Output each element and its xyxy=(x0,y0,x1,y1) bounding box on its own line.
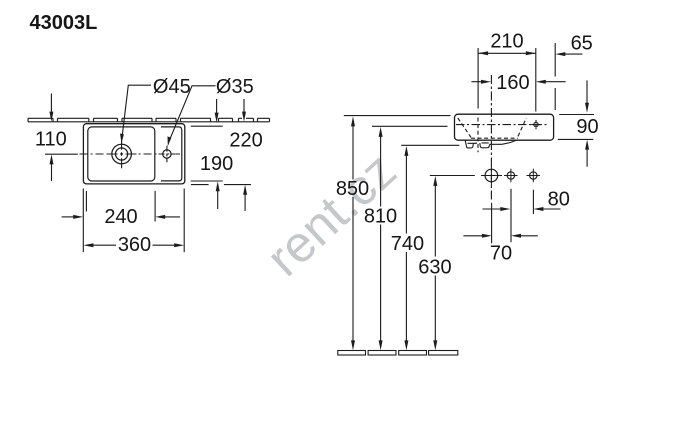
dimension labels xyxy=(35,31,599,279)
vertical centerline xyxy=(490,75,492,202)
vertical centerline solid lower part xyxy=(491,203,493,244)
svg-text:43003L: 43003L xyxy=(30,12,98,34)
dim 850 shaft xyxy=(352,124,354,343)
dim 240 right arrow shaft xyxy=(164,216,181,218)
dim 190 upper arrow shaft xyxy=(216,99,218,114)
svg-text:65: 65 xyxy=(571,32,593,54)
svg-text:160: 160 xyxy=(496,72,529,94)
svg-text:80: 80 xyxy=(548,189,570,211)
dim 80 right arrow shaft xyxy=(542,208,561,210)
dim 90 upper arrow shaft xyxy=(586,80,588,104)
dim 70 left arrow shaft xyxy=(463,235,484,237)
arrow 110 down xyxy=(49,112,53,122)
hole H1 xyxy=(481,165,502,186)
crosshair D35 vertical xyxy=(166,146,168,162)
extension line 360 left xyxy=(82,189,84,253)
arrow 240 left xyxy=(155,215,165,219)
dim 110 upper arrow shaft xyxy=(50,94,52,114)
leader arrow D35 xyxy=(168,136,172,146)
arrow 360 right xyxy=(174,243,184,247)
dim 80 left arrow shaft xyxy=(483,208,503,210)
dim 160 left arrow shaft xyxy=(471,81,483,83)
arrow 90 down xyxy=(585,103,589,113)
arrow 740 top xyxy=(404,146,408,156)
tap hole D45 inner circle xyxy=(116,148,128,160)
crosshair D45 vertical xyxy=(121,140,123,168)
wall band top line segments xyxy=(28,117,270,119)
hole D35 circle xyxy=(163,150,171,158)
svg-text:810: 810 xyxy=(364,205,397,227)
svg-text:Ø35: Ø35 xyxy=(216,76,254,98)
arrow 220 up xyxy=(243,185,247,195)
ref line 740 xyxy=(401,144,459,146)
floor tiles xyxy=(338,351,458,356)
arrow 220 down xyxy=(242,112,246,122)
basin front view outline xyxy=(455,114,554,140)
extension hole2 vertical xyxy=(510,189,512,242)
svg-text:360: 360 xyxy=(118,234,151,256)
arrow 740 bottom xyxy=(404,340,408,350)
waterline dash-dot xyxy=(456,124,548,126)
wall line left of basin xyxy=(344,115,451,117)
dim 220 upper arrow shaft xyxy=(243,99,245,113)
basin right shelf xyxy=(161,127,182,181)
arrowheads xyxy=(49,51,589,350)
svg-text:850: 850 xyxy=(336,178,369,200)
dim 360 line xyxy=(92,244,177,246)
hidden tap hole cross xyxy=(531,120,541,129)
arrow 810 top xyxy=(379,127,383,137)
dim 110 lower arrow shaft xyxy=(51,163,53,182)
basin inner bowl xyxy=(88,127,155,181)
arrow 160 right-pointing xyxy=(481,80,491,84)
arrow 110 up xyxy=(50,154,54,164)
arrow 850 bottom xyxy=(351,340,355,350)
svg-text:210: 210 xyxy=(490,31,523,53)
dim 210 line xyxy=(478,52,536,54)
crosshair D45 horizontal xyxy=(107,153,137,155)
arrow 70 left-pointing xyxy=(511,234,521,238)
arrow 70 right-pointing xyxy=(482,234,492,238)
dim 190 lower arrow shaft xyxy=(217,190,219,210)
extension line 360 right xyxy=(183,189,185,253)
dim 65 line xyxy=(563,53,582,55)
ref line 630 / hole axis xyxy=(430,175,475,177)
dim 240 left arrow shaft xyxy=(62,216,75,218)
wall/ext line right of basin xyxy=(559,114,594,116)
arrow 210 left xyxy=(478,51,488,55)
svg-text:220: 220 xyxy=(229,129,262,151)
tap hole D45 outer circle xyxy=(112,144,132,164)
svg-text:240: 240 xyxy=(104,206,137,228)
dim 70 right arrow shaft xyxy=(519,235,538,237)
leader D45 xyxy=(122,85,151,138)
svg-text:740: 740 xyxy=(391,233,424,255)
leader D35 xyxy=(169,86,216,142)
dim 160 right arrow shaft xyxy=(544,81,566,83)
wall band bottom line xyxy=(28,121,270,123)
extension 210/160 right xyxy=(535,48,537,112)
leader arrow D45 xyxy=(120,134,124,144)
arrow 850 top xyxy=(351,116,355,126)
extension line 240 right xyxy=(154,191,156,222)
arrow 360 left xyxy=(83,243,93,247)
arrow 65 left xyxy=(555,52,565,56)
svg-text:70: 70 xyxy=(490,243,512,265)
extension inner top edge xyxy=(191,125,223,127)
arrow 190 up xyxy=(216,181,220,191)
dim 220 lower arrow shaft xyxy=(244,193,246,211)
arrow 810 bottom xyxy=(379,340,383,350)
extension of basin bottom right xyxy=(558,138,594,140)
extension outer bottom edge xyxy=(191,184,251,186)
wall band end caps xyxy=(28,118,270,122)
arrow 630 bottom xyxy=(433,340,437,350)
dim 110 line at hole axis xyxy=(45,153,78,155)
dim 90 lower arrow shaft xyxy=(586,148,588,167)
hidden bowl outline dashed xyxy=(458,118,527,138)
extension 65 right xyxy=(554,43,556,110)
trap outline xyxy=(465,140,516,148)
drain dashed vertical xyxy=(477,118,479,153)
tap hole center dot xyxy=(121,153,123,155)
dim 810 shaft xyxy=(380,135,382,344)
crosshair D35 horizontal xyxy=(159,153,176,155)
arrow 210 right xyxy=(526,51,536,55)
svg-text:90: 90 xyxy=(576,116,598,138)
fixing hole circles xyxy=(481,165,540,186)
svg-text:110: 110 xyxy=(35,128,67,150)
svg-text:190: 190 xyxy=(200,153,233,175)
extension inner bottom edge xyxy=(191,180,223,182)
centerline through holes xyxy=(80,153,181,155)
dim 630 shaft xyxy=(434,184,436,344)
ref line 810 xyxy=(372,125,448,127)
arrow 240 right xyxy=(73,215,83,219)
hole H3 xyxy=(527,169,541,183)
arrow 80 left-pointing xyxy=(533,207,543,211)
svg-text:630: 630 xyxy=(418,256,451,278)
dim 740 shaft xyxy=(405,154,407,344)
extension hole3 vertical xyxy=(532,190,534,214)
arrow 80 right-pointing xyxy=(500,207,510,211)
arrow 160 left-pointing xyxy=(536,80,546,84)
svg-text:Ø45: Ø45 xyxy=(153,76,191,98)
basin outer rect (top view) xyxy=(83,124,184,184)
arrow 630 top xyxy=(433,176,437,186)
hole H2 xyxy=(504,169,518,183)
extension line 240 left xyxy=(85,191,87,212)
extension 210 left xyxy=(477,48,479,109)
arrow 90 up xyxy=(585,140,589,150)
arrow 190 down xyxy=(215,113,219,123)
